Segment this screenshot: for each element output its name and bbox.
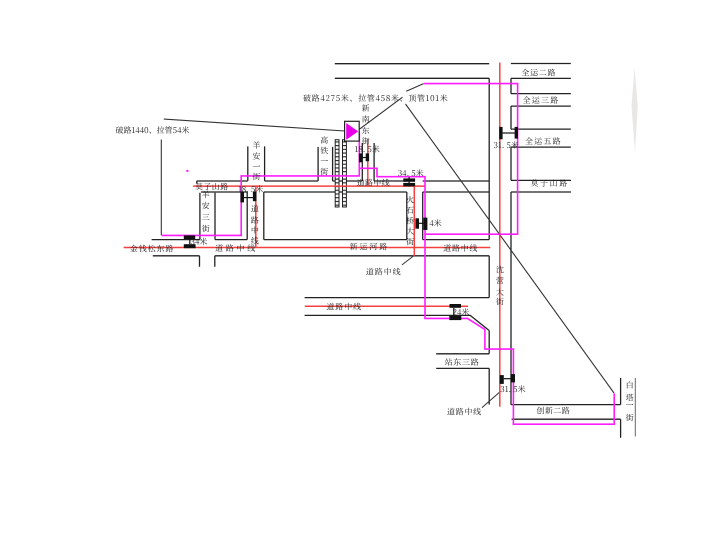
magenta stem from triangle [358,132,360,169]
tick 4米 [415,218,419,228]
svg-text:新运河路: 新运河路 [350,241,390,252]
svg-text:道路中线: 道路中线 [366,267,402,278]
tick 31.5米 top [499,127,502,139]
svg-text:全运二路: 全运二路 [521,68,556,79]
svg-text:莫子山路: 莫子山路 [530,178,568,189]
svg-text:4米: 4米 [429,218,441,229]
street 新南东街 edges [362,143,374,181]
road 沈营大街 east edge [510,78,512,404]
svg-text:道路中线: 道路中线 [357,178,390,189]
vertical label 羊安三街 [202,190,210,235]
svg-text:全运三路: 全运三路 [523,95,560,106]
svg-text:安: 安 [252,151,260,162]
road 莫子山路 west north edge [197,181,489,184]
red centerline 羊安一街 extension [255,186,257,247]
railway track 2 [343,140,347,207]
magenta pipeline branch to 全运 loop [424,84,518,235]
street 火石桥大街 edges [407,192,423,240]
svg-text:街: 街 [626,413,634,424]
railway track 1 [335,140,339,207]
svg-text:道: 道 [251,203,259,214]
svg-text:24米: 24米 [453,307,470,318]
magenta pipeline main route [162,168,615,424]
red centerline 火石桥大街 [413,186,415,256]
svg-text:破路4275米、拉管458米、顶管101米: 破路4275米、拉管458米、顶管101米 [303,93,448,104]
tick 24米 [450,304,462,308]
svg-text:火: 火 [406,195,414,206]
svg-text:桥: 桥 [406,216,414,227]
svg-text:31. 5米: 31. 5米 [494,140,519,151]
vertical label 白塔一街 [626,380,634,423]
svg-text:安: 安 [202,201,210,212]
svg-text:东: 东 [362,125,370,136]
road south (unnamed) north edge [305,297,490,299]
red centerline 金钱松东路/新运河路 [124,247,491,249]
svg-text:道路中线: 道路中线 [326,301,362,312]
svg-text:街: 街 [320,167,328,178]
street 高铁一街 edges [318,147,333,181]
svg-text:大: 大 [406,226,414,237]
svg-text:全运五路: 全运五路 [525,136,562,147]
vertical label 沈营大街 [496,265,504,308]
svg-text:莫子山路: 莫子山路 [195,181,229,192]
road 全运五路 [511,129,571,147]
svg-text:高: 高 [320,135,328,146]
tick 18.5米 at 新南东街 [359,153,362,162]
svg-text:街: 街 [496,297,504,308]
svg-text:站东三路: 站东三路 [445,357,480,368]
road 金钱松东路/新运河路 south edge with stubs [153,256,489,267]
road 创新二路 edges [511,405,621,420]
magenta dot [186,170,188,172]
street 羊安一街 south extension edges [247,192,264,240]
tick 34米 [184,235,195,239]
road 莫子山路 east stubs [511,180,571,192]
vertical label 新南东街 [362,103,370,147]
svg-text:羊: 羊 [252,140,260,151]
road 金钱松东路/新运河路 north edge [152,239,490,241]
road 全运二路 [511,64,571,79]
svg-text:沈: 沈 [496,265,504,276]
red centerline south road [305,305,468,307]
svg-text:石: 石 [406,205,414,216]
svg-text:三: 三 [202,212,210,223]
svg-text:营: 营 [496,276,504,287]
svg-text:中: 中 [251,225,259,236]
tick 18.5米 at 羊安 [240,192,244,203]
svg-text:18. 5米: 18. 5米 [355,144,380,155]
leader of black 道路中线 label (bottom) [482,391,501,407]
tick 31.5米 bottom [500,375,504,384]
svg-text:南: 南 [362,114,370,125]
street 白塔一街 east edge [634,378,636,437]
road 沈营大街 west edge [488,78,490,404]
svg-text:一: 一 [626,400,634,411]
svg-text:18. 5米: 18. 5米 [238,184,263,195]
triangle box symbol [345,121,360,141]
leader line from annotation to triangle apex [359,97,403,130]
vertical label 高铁一街 [320,135,328,178]
vertical label 道路中线 red centerline extension [251,203,259,246]
svg-text:线: 线 [251,236,259,247]
road top west (edges) [335,64,489,79]
svg-text:破路1440、拉管54米: 破路1440、拉管54米 [116,125,190,136]
svg-text:羊: 羊 [202,190,210,201]
long leader line to pipeline end bottom right [406,104,615,393]
svg-text:白: 白 [626,380,634,391]
svg-text:街: 街 [252,171,260,182]
street 羊安一街 edges [248,146,265,181]
vertical label 火石桥大街 [406,195,414,248]
leader of black 道路中线 label (新运河路) [402,256,414,265]
road 莫子山路 west south edge [201,191,489,193]
svg-text:新: 新 [362,103,370,114]
svg-text:道路中线: 道路中线 [443,243,478,254]
svg-text:街: 街 [406,237,414,248]
street 白塔一街 west edge [620,378,622,438]
svg-text:金钱松东路: 金钱松东路 [130,243,175,254]
road 全运三路 [511,94,571,107]
svg-text:道路中线: 道路中线 [447,406,482,417]
svg-text:34. 5米: 34. 5米 [398,168,424,179]
leader line from 破路1440 text to triangle [164,119,345,131]
vertical line below 破路1440 text [160,140,162,236]
tick 34.5米 [403,178,415,181]
vertical label 羊安一街 [252,140,260,182]
red centerline 莫子山路 [193,185,425,187]
road south (unnamed) south edge with chamfer [305,315,489,330]
svg-text:铁: 铁 [320,146,328,157]
red centerline 新南东街 [367,139,369,186]
svg-text:街: 街 [202,223,210,234]
road 站东三路 edges [436,354,489,369]
svg-text:31. 5米: 31. 5米 [500,384,525,395]
street 羊安三街 edges [200,193,215,240]
svg-text:34米: 34米 [191,236,208,247]
svg-text:创新二路: 创新二路 [537,406,571,417]
svg-text:一: 一 [320,156,328,167]
leader line to magenta end (top) [406,84,423,91]
north compass (faint) [632,68,638,152]
red centerline 沈营大街 [499,63,501,407]
